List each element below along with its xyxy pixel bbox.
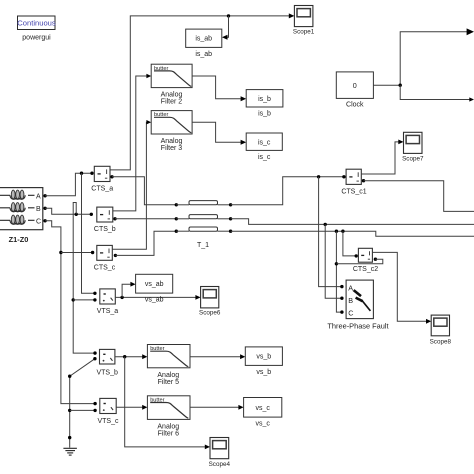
svg-text:A: A bbox=[348, 283, 353, 292]
wire neutral branch to VTS_c lower input bbox=[70, 409, 97, 412]
wire CTS_a top output up and across to Scope1 bbox=[110, 13, 294, 170]
svg-text:Clock: Clock bbox=[346, 101, 364, 108]
wire filter2 output to is_b bbox=[192, 76, 246, 101]
wire CTS_a series output down to line T_1 phase a bbox=[110, 175, 176, 205]
svg-text:CTS_c1: CTS_c1 bbox=[341, 188, 366, 195]
analog filter 6 block bbox=[147, 396, 190, 420]
goto tag vs_b bbox=[245, 347, 282, 366]
scope Scope7 bbox=[404, 132, 423, 153]
wire branch down to CTS_c2 input bbox=[343, 231, 358, 257]
wire neutral/ground line with diagonal to VTS_b lower bbox=[68, 357, 97, 448]
wire branch down into is_ab (flipped goto, arrow points left) bbox=[222, 16, 229, 40]
svg-text:Continuous: Continuous bbox=[17, 19, 56, 28]
Analog Filter 6 label bbox=[157, 423, 179, 437]
subsystem VTS_c bbox=[100, 398, 116, 413]
wire branch down to three-phase fault input C bbox=[335, 231, 344, 314]
wire line c continuation to right edge bbox=[231, 230, 474, 237]
svg-text:is_b: is_b bbox=[258, 110, 271, 117]
svg-text:vs_c: vs_c bbox=[255, 420, 270, 427]
svg-text:is_b: is_b bbox=[258, 96, 271, 103]
analog filter 2 block bbox=[151, 64, 192, 87]
svg-text:Analog: Analog bbox=[157, 423, 179, 430]
svg-text:Filter 5: Filter 5 bbox=[158, 379, 180, 386]
svg-text:Analog: Analog bbox=[157, 372, 179, 379]
wire VTS_a output to Scope6 with branch up to vs_ab bbox=[115, 282, 200, 300]
Analog Filter 2 label bbox=[161, 91, 183, 105]
wire filter6 output to vs_c bbox=[190, 405, 244, 410]
svg-text:VTS_b: VTS_b bbox=[96, 369, 118, 376]
svg-text:is_ab: is_ab bbox=[195, 36, 212, 43]
wire phase C down to VTS_c upper bbox=[45, 221, 97, 405]
wire phase A to CTS_a bbox=[45, 172, 94, 196]
svg-text:Filter 3: Filter 3 bbox=[161, 145, 183, 152]
svg-text:Z1-Z0: Z1-Z0 bbox=[9, 235, 29, 244]
svg-text:Filter 2: Filter 2 bbox=[161, 98, 183, 105]
analog filter 5 block bbox=[147, 345, 190, 368]
Analog Filter 5 label bbox=[157, 372, 179, 386]
svg-text:CTS_c2: CTS_c2 bbox=[353, 266, 378, 273]
svg-text:Scope6: Scope6 bbox=[199, 310, 221, 317]
svg-text:0: 0 bbox=[353, 81, 357, 90]
svg-text:Scope4: Scope4 bbox=[209, 461, 231, 468]
svg-text:vs_c: vs_c bbox=[255, 405, 270, 412]
scope Scope6 bbox=[201, 287, 219, 308]
svg-text:vs_ab: vs_ab bbox=[145, 281, 164, 288]
wire filter3 output to is_c bbox=[192, 122, 246, 145]
svg-text:CTS_b: CTS_b bbox=[94, 226, 116, 233]
svg-text:is_c: is_c bbox=[258, 139, 271, 146]
goto tag vs_c bbox=[244, 398, 282, 418]
svg-text:C: C bbox=[348, 309, 353, 318]
svg-text:Analog: Analog bbox=[161, 91, 183, 98]
goto tag is_b bbox=[246, 90, 283, 107]
transmission line T_1 phase b segment bbox=[175, 215, 233, 221]
wire CTS_b top output up to filter2 input bbox=[113, 74, 151, 211]
svg-text:Three-Phase Fault: Three-Phase Fault bbox=[327, 322, 388, 331]
svg-text:VTS_a: VTS_a bbox=[97, 308, 119, 315]
subsystem CTS_b bbox=[97, 207, 113, 222]
node B port dot bbox=[43, 207, 46, 210]
svg-text:Analog: Analog bbox=[161, 138, 183, 145]
node A port dot bbox=[43, 194, 46, 197]
svg-text:Scope7: Scope7 bbox=[402, 155, 424, 162]
powergui block (Continuous) bbox=[17, 16, 56, 30]
clock block bbox=[336, 72, 373, 99]
scope Scope4 bbox=[210, 438, 229, 459]
wire phase B branch to VTS_a lower input bbox=[73, 298, 96, 301]
svg-text:A: A bbox=[36, 194, 41, 201]
svg-text:CTS_a: CTS_a bbox=[91, 186, 113, 193]
subsystem CTS_a bbox=[94, 166, 110, 181]
subsystem CTS_c2 bbox=[358, 248, 372, 262]
svg-text:B: B bbox=[36, 206, 41, 213]
svg-text:vs_b: vs_b bbox=[256, 369, 271, 376]
scope Scope8 bbox=[431, 315, 449, 336]
subsystem CTS_c1 bbox=[346, 169, 361, 184]
svg-text:VTS_c: VTS_c bbox=[97, 418, 119, 425]
wire phase C branch to CTS_c input bbox=[61, 251, 94, 254]
scope Scope1 bbox=[294, 6, 313, 27]
ground symbol bbox=[63, 448, 77, 455]
wire branch down to three-phase fault input B bbox=[325, 224, 343, 300]
wire CTS_c2 series output loop back to fault C branch bbox=[336, 258, 382, 264]
svg-text:Scope8: Scope8 bbox=[430, 339, 452, 346]
wire phase A branch down to VTS_a upper input bbox=[82, 173, 97, 295]
svg-text:vs_ab: vs_ab bbox=[145, 297, 164, 304]
svg-text:powergui: powergui bbox=[22, 35, 51, 42]
wire CTS_c series output to line T_1 phase c bbox=[114, 231, 177, 257]
svg-text:T_1: T_1 bbox=[197, 242, 209, 249]
wire VTS_b output to filter5 with branch down to Scope4 bbox=[115, 354, 210, 449]
wire branch down to three-phase fault input A bbox=[319, 177, 344, 288]
goto tag is_ab bbox=[186, 29, 222, 47]
svg-text:C: C bbox=[36, 219, 41, 226]
svg-text:is_c: is_c bbox=[258, 154, 271, 161]
svg-text:Scope1: Scope1 bbox=[293, 28, 315, 35]
wire VTS_c output to filter6 bbox=[116, 405, 147, 410]
Analog Filter 3 label bbox=[161, 138, 183, 152]
wire CTS_b series output to line T_1 phase b bbox=[113, 217, 176, 220]
three-phase fault block bbox=[346, 280, 373, 319]
wire clock output to right edge (two branches) bbox=[373, 28, 474, 101]
wire CTS_c1 top output to Scope7 bbox=[361, 140, 403, 175]
svg-text:B: B bbox=[348, 296, 353, 305]
wire phase B to CTS_b bbox=[45, 208, 93, 216]
wire CTS_c2 top output to Scope8 bbox=[372, 252, 431, 323]
analog filter 3 block bbox=[151, 111, 192, 134]
goto tag is_c bbox=[246, 133, 282, 150]
wire phase B branch with hop, down to VTS_a lower and VTS_b upper bbox=[72, 203, 97, 355]
svg-text:vs_b: vs_b bbox=[256, 354, 271, 361]
subsystem VTS_a bbox=[100, 289, 116, 304]
wire filter5 output to vs_b bbox=[190, 354, 245, 359]
svg-text:Filter 6: Filter 6 bbox=[158, 430, 180, 437]
node C port dot bbox=[43, 219, 46, 222]
wire line b continuation to right edge, branch to fault B bbox=[231, 219, 474, 226]
transmission line T_1 phase c segment bbox=[175, 227, 233, 233]
three-phase source block Z1-Z0 bbox=[0, 188, 43, 230]
transmission line T_1 phase a segment bbox=[175, 201, 233, 207]
svg-text:CTS_c: CTS_c bbox=[94, 264, 116, 271]
svg-text:is_ab: is_ab bbox=[195, 51, 212, 58]
subsystem CTS_c bbox=[97, 245, 113, 260]
goto tag vs_ab bbox=[136, 274, 173, 293]
subsystem VTS_b bbox=[100, 349, 115, 364]
wire line a to CTS_c1 input, branch down to fault A bbox=[231, 175, 346, 205]
wire CTS_c top output up to filter3 input bbox=[112, 120, 151, 249]
wire CTS_c1 measurement output to right edge bbox=[362, 179, 474, 211]
